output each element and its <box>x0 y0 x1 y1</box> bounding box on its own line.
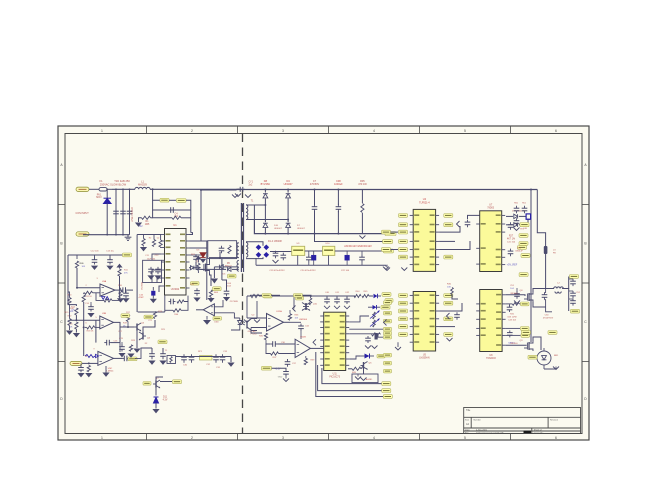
svg-text:C20 470uF/25V: C20 470uF/25V <box>300 270 316 272</box>
yellow label far left of rail <box>296 296 304 300</box>
gnd arrows by y-cap <box>232 195 238 198</box>
center filled ground arrow <box>213 267 215 278</box>
svg-text:LINE FILTER: LINE FILTER <box>131 207 134 222</box>
caps left under Q1 <box>196 288 198 290</box>
filter capacitor C2 <box>122 189 124 234</box>
second output bus <box>537 190 545 247</box>
wire RV1 to rails <box>106 189 108 198</box>
regulator U9 7812 <box>292 246 305 255</box>
top rail to L1 <box>112 188 135 190</box>
aux winding rectifier <box>232 268 239 270</box>
R16 resistor to ground <box>75 322 78 329</box>
U7 right diode D12 <box>514 214 518 218</box>
svg-text:47K: 47K <box>124 272 128 274</box>
svg-text:R27: R27 <box>509 236 514 238</box>
rail cap C13 <box>109 255 111 259</box>
filled arrow right of U1 <box>200 259 206 263</box>
mid cap 2 <box>308 255 310 258</box>
svg-text:PIC16C73: PIC16C73 <box>329 376 340 378</box>
output mosfet Q7 <box>528 293 530 301</box>
reg input cap2 <box>282 253 284 256</box>
second bus continues to choke node <box>545 254 547 289</box>
reg output blue cap <box>345 255 350 260</box>
svg-text:4: 4 <box>373 129 375 133</box>
input rail junction dots <box>106 188 108 190</box>
transistor Q10 with pullup <box>293 296 295 309</box>
U5 left pin labels <box>399 294 408 298</box>
svg-text:2: 2 <box>191 129 193 133</box>
mosfet source sense resistor R06 <box>210 273 212 287</box>
U3A output feedback <box>115 289 119 291</box>
gate protection diode <box>191 266 194 270</box>
bridge rectifier diodes blue <box>256 245 262 251</box>
U8 right label row 328 <box>506 327 520 329</box>
U12A input wires <box>247 317 267 319</box>
connector J1 line input <box>76 187 89 191</box>
yellow labels column far right of U6 <box>384 301 392 305</box>
transformer secondary taps <box>254 204 265 206</box>
reg output cap2 <box>361 255 363 258</box>
svg-text:GND: GND <box>278 377 283 379</box>
svg-text:U3B: U3B <box>102 313 107 315</box>
ground under R2 <box>135 223 142 227</box>
wire opamp3 to bottom row <box>135 348 152 358</box>
divider resistor R09 <box>76 255 78 259</box>
wire label to sense node <box>186 200 191 232</box>
svg-text:4.3V: 4.3V <box>163 400 168 402</box>
left bus wire <box>68 255 76 306</box>
border row ticks left/right <box>58 204 65 206</box>
output caps <box>572 279 574 281</box>
filter capacitor C1 <box>115 189 117 234</box>
yellow label right of U1 <box>191 282 200 286</box>
svg-text:TD62003: TD62003 <box>486 358 496 360</box>
regulator U10 7805 <box>323 246 335 255</box>
svg-text:4-Nov-2005: 4-Nov-2005 <box>476 430 488 432</box>
zener label yellow left <box>143 382 151 386</box>
regulator output wire <box>335 250 383 252</box>
vcc resistor cluster R downs <box>142 239 145 246</box>
yellow label right of Q1 <box>228 274 237 278</box>
yellow label below Q1 <box>213 287 222 291</box>
svg-text:U12B: U12B <box>300 336 306 338</box>
U3D ground arrow <box>206 316 208 320</box>
yellow label D13 net <box>520 223 529 227</box>
wire drain from primary <box>210 258 221 263</box>
U4 left pin labels <box>399 214 408 218</box>
svg-text:3: 3 <box>282 436 284 440</box>
earth ground input <box>127 235 129 238</box>
wire feedback down to U3C <box>119 343 121 352</box>
extra caps mid left <box>90 305 92 307</box>
U8 gnd open arrow <box>447 338 453 341</box>
border column ticks top/bottom <box>146 126 148 134</box>
plus12 rail to label <box>315 234 383 242</box>
yellow label extra 2 <box>213 317 222 321</box>
svg-text:5: 5 <box>464 129 466 133</box>
svg-text:C41 104: C41 104 <box>507 242 516 244</box>
yellow label right of led <box>377 354 385 358</box>
svg-text:Date:: Date: <box>465 429 470 432</box>
transistor Q5 <box>155 381 157 388</box>
arrow above U12B output <box>313 339 316 345</box>
svg-text:R18 1K: R18 1K <box>87 331 94 333</box>
yellow labels left of U6 <box>262 294 271 298</box>
filter cap C7 <box>314 190 316 206</box>
svg-text:D:\design\power\ups2005.ddb: D:\design\power\ups2005.ddb <box>476 431 504 434</box>
svg-text:4: 4 <box>373 436 375 440</box>
yellow label right of U7 b <box>521 254 530 258</box>
ground pin of U1 <box>159 286 161 292</box>
C18 bias cap <box>80 365 82 367</box>
double gnd arrows left <box>246 296 248 318</box>
ic U5 comparator bank <box>413 292 435 352</box>
ground under zener <box>155 403 157 409</box>
U5 to U8 wires <box>439 303 462 311</box>
open gnd arrow below cap <box>283 379 289 382</box>
output choke L2 <box>554 287 564 289</box>
cap C37 <box>287 359 289 361</box>
wire fets to choke <box>533 289 554 293</box>
U3D input wires <box>214 300 223 307</box>
svg-text:470uF/16V: 470uF/16V <box>543 318 554 320</box>
net wire into U12A <box>250 294 262 296</box>
transformer T1 secondary winding lower <box>246 242 248 257</box>
U12B input wires <box>278 343 296 345</box>
svg-text:10uF 104: 10uF 104 <box>147 258 156 260</box>
svg-text:UF4007: UF4007 <box>284 183 294 186</box>
U3C blue input chain <box>85 354 99 357</box>
rail resistor left <box>247 295 251 297</box>
U12A output resistor R36 <box>284 321 291 323</box>
bottom input rail <box>83 234 130 236</box>
svg-text:5: 5 <box>464 436 466 440</box>
svg-text:Z1 P6KE: Z1 P6KE <box>230 301 239 303</box>
wire box to U1 <box>162 259 165 261</box>
sense cap C4 <box>168 209 191 211</box>
wires U6 right pins to label column <box>349 316 369 322</box>
U4 right wires to U7 <box>439 226 460 232</box>
svg-text:U11: U11 <box>333 373 338 375</box>
U5 right pin labels <box>444 294 453 298</box>
rcd clamp box <box>208 241 237 259</box>
U3A minus input wire <box>77 287 100 289</box>
optocoupler U2 arrows <box>242 321 246 323</box>
svg-text:+1.5V: +1.5V <box>275 369 282 371</box>
resistor above U6 <box>309 298 312 305</box>
U8 gate resistor row <box>512 303 519 306</box>
U1 left pin tie wires <box>152 254 161 260</box>
U12A output cap C34 <box>290 321 301 323</box>
svg-text:TLP521-4: TLP521-4 <box>419 201 430 204</box>
open arrow near circle <box>553 367 559 370</box>
crystal box bottom-left <box>167 356 176 364</box>
mid column resistors <box>126 315 129 322</box>
yellow-top component <box>200 356 213 361</box>
transformer secondary loop wire <box>246 205 254 220</box>
wire HV drop to +310V labels <box>153 189 160 200</box>
svg-text:470/50V: 470/50V <box>310 183 320 186</box>
R21 bias resistor <box>87 365 90 372</box>
trimmer VR2 blue <box>373 320 376 327</box>
svg-text:U3D: U3D <box>214 321 219 323</box>
wire between labels <box>169 199 176 201</box>
bottom long wire <box>138 311 165 313</box>
svg-text:250VAC SLOW BLOW: 250VAC SLOW BLOW <box>100 183 127 187</box>
led D14 blue <box>365 354 370 359</box>
wire choke to output node <box>562 277 569 289</box>
Y-cap across isolation <box>237 188 240 190</box>
svg-text:Revision: Revision <box>550 419 559 421</box>
output mosfet Q8 <box>528 342 530 350</box>
wire L1 to HV node <box>150 188 242 190</box>
net label 1.5V <box>262 366 272 370</box>
U3B minus input long wire <box>69 319 100 321</box>
U3D output wire left <box>196 309 203 311</box>
fuse F1 <box>97 188 99 190</box>
yellow label extra 1 <box>121 314 130 318</box>
net label right of Q5 <box>173 380 182 384</box>
transformer T1 core <box>240 203 242 272</box>
svg-text:AGND: AGND <box>366 378 373 381</box>
output connector labels <box>570 275 579 279</box>
wire J4 to U3C <box>82 362 98 364</box>
svg-text:6: 6 <box>555 436 557 440</box>
cap between U4 U7 <box>457 221 460 227</box>
svg-text:T1D 4AB 250: T1D 4AB 250 <box>114 179 130 183</box>
svg-text:AN=DC12V GND=DC12V: AN=DC12V GND=DC12V <box>344 245 372 248</box>
net label HV+ <box>177 199 187 203</box>
mid cap blue polarized <box>311 255 316 260</box>
snubber cap C06 <box>221 259 223 280</box>
decoupling cap bank above U6 <box>326 297 328 299</box>
opamp U12A <box>267 314 284 332</box>
start resistor R2 <box>142 216 151 219</box>
U3B feedback cap C16 <box>95 320 97 342</box>
blue zener in ref row <box>374 294 378 298</box>
svg-text:R12 1K: R12 1K <box>85 296 92 298</box>
blue cap right <box>526 214 531 220</box>
logo mark <box>524 431 532 433</box>
far-left resistor column <box>68 298 71 305</box>
svg-text:6: 6 <box>555 129 557 133</box>
U1 right wire row1 <box>190 240 207 242</box>
bottom row caps 2 <box>215 354 217 357</box>
wire reg1 to reg2 <box>305 250 323 252</box>
U7 right diode D13 <box>514 223 518 227</box>
svg-text:Number: Number <box>474 418 482 421</box>
power symbol box below U6 <box>352 374 378 383</box>
mid resistor R35 <box>264 333 267 340</box>
svg-text:4K7 1%: 4K7 1% <box>507 239 515 241</box>
U3A blue diode pair <box>102 297 105 300</box>
junction dots secondary <box>264 189 266 191</box>
opamp U3C <box>98 351 114 365</box>
svg-text:C22 104: C22 104 <box>341 270 350 272</box>
U5 gnd arrow <box>395 347 401 350</box>
rectifier D8 <box>264 190 266 193</box>
caps bottom-left cluster <box>151 351 153 354</box>
rail yellow label left <box>264 294 273 298</box>
svg-text:UC3842: UC3842 <box>171 289 180 291</box>
svg-text:BYV26C: BYV26C <box>261 183 271 186</box>
wire winding to bridge top <box>246 242 263 246</box>
opamp U3D pointing left <box>203 304 214 316</box>
net label on left rail <box>123 253 132 257</box>
transformer T1 secondary winding upper <box>246 205 248 220</box>
cluster resistor 3 <box>159 240 162 247</box>
wire primary bottom to mosfet drain <box>220 252 239 258</box>
clamp cap <box>221 246 223 249</box>
bleed resistor R5 <box>361 190 363 204</box>
optocoupler U2 transistor side <box>246 321 248 329</box>
bottom row ground <box>227 363 234 367</box>
svg-text:IRF540: IRF540 <box>510 293 518 295</box>
ferrite bead L3 <box>544 246 548 254</box>
gnd open arrow under y-cap <box>235 194 241 197</box>
U1 right wire row2 <box>190 247 207 249</box>
cap below gate row <box>509 305 511 307</box>
svg-text:C43 104: C43 104 <box>508 320 517 322</box>
U8 right wire to Q7 gate <box>506 295 525 296</box>
svg-text:U3A: U3A <box>102 280 107 283</box>
U8 right label row 335 <box>506 334 521 336</box>
opamp U3B <box>100 316 114 329</box>
U1 right wire row3 <box>190 254 203 256</box>
filter cap C8 <box>337 190 339 206</box>
regulator bottom ground rail <box>256 264 386 266</box>
gnd open arrow on lower rail <box>359 236 365 239</box>
bus cap and resistor mid right <box>516 291 518 293</box>
yellow labels mid-left area <box>144 315 153 319</box>
U3B output wire <box>114 322 121 342</box>
U4 gnd arrows <box>384 268 390 271</box>
svg-text:MH2029: MH2029 <box>138 185 147 187</box>
svg-text:Sheet of: Sheet of <box>534 429 542 432</box>
ic U4 optocoupler driver <box>413 209 435 271</box>
bus wire row1 to label <box>322 368 382 384</box>
reg input cap <box>275 251 277 254</box>
yellow net label on lower rail right <box>385 232 396 236</box>
svg-text:1M5: 1M5 <box>145 224 150 226</box>
svg-text:IRF540: IRF540 <box>510 343 518 345</box>
title block <box>464 408 581 434</box>
U3A plus input resistor R12 <box>83 292 86 294</box>
bias ground arrows <box>85 373 92 377</box>
svg-text:10K 1/2W: 10K 1/2W <box>507 317 516 319</box>
bus wire row2 to label <box>318 365 382 391</box>
gnd under C06 <box>223 297 230 301</box>
wire vcc to U1 <box>190 233 193 235</box>
bottom right diode circle part <box>537 351 551 365</box>
svg-text:UF4007: UF4007 <box>274 228 283 230</box>
svg-text:1: 1 <box>101 129 103 133</box>
U12B output to U6 <box>310 347 323 349</box>
U3B plus input resistor R18 <box>87 326 95 329</box>
svg-text:LM2904: LM2904 <box>299 319 308 321</box>
wire bus down to Q8 <box>530 299 532 342</box>
right vertical bus from top <box>530 206 532 299</box>
svg-text:470P: 470P <box>138 297 144 299</box>
transformer T1 primary winding <box>237 243 239 258</box>
open arrow right of trimmers <box>384 319 387 325</box>
columns x120 small parts <box>119 291 122 298</box>
ic U7 regulator <box>480 211 502 272</box>
inner border frame <box>65 134 582 434</box>
U1 top right pull parts <box>195 256 201 260</box>
bus cap left of choke <box>544 292 546 294</box>
svg-text:Drawn By:: Drawn By: <box>534 431 544 434</box>
svg-text:U12A: U12A <box>276 310 282 313</box>
caps right column <box>516 218 518 221</box>
transistor Q3 <box>136 324 138 331</box>
bridge output wire <box>270 251 292 253</box>
svg-text:2: 2 <box>191 436 193 440</box>
svg-text:78D05: 78D05 <box>487 208 494 210</box>
svg-text:U3C: U3C <box>108 368 113 370</box>
wire clamp to transformer primary top <box>237 242 239 244</box>
cap row 334 <box>509 330 511 332</box>
zener D11 blue <box>155 388 157 396</box>
rectifier D7 lower <box>286 223 291 227</box>
svg-text:Title: Title <box>466 409 471 412</box>
left loop wire around U1 <box>137 234 161 236</box>
sheet background <box>58 126 589 440</box>
yellow label lower right of U7 <box>519 273 528 277</box>
filter capacitor C3 <box>129 189 131 234</box>
svg-text:3300uF: 3300uF <box>515 250 523 252</box>
secondary lower rail <box>254 220 395 234</box>
parts at right top x515-530 <box>516 206 518 209</box>
pull-up arrow and resistor R11 <box>116 264 122 268</box>
svg-text:LM339AN: LM339AN <box>419 356 430 359</box>
wire top rail to far right <box>530 190 532 207</box>
resistor R39 <box>304 358 307 365</box>
yellow labels right column <box>519 234 528 238</box>
U4 far left labels <box>382 230 391 234</box>
blue cap C15 with ground <box>152 287 154 291</box>
wires transistor pair <box>120 326 134 328</box>
svg-text:1000uF: 1000uF <box>334 183 343 186</box>
blue polarized cap right top <box>526 214 531 219</box>
rail cap C12 <box>94 255 96 259</box>
U3C output cap <box>114 357 123 359</box>
cap above U8 <box>456 312 458 315</box>
lower mid-left parts <box>121 345 123 347</box>
U8 right wire to Q8 gate blue text <box>506 344 527 346</box>
optocoupler U2 led side <box>234 313 239 318</box>
Q6 base resistor <box>352 367 361 370</box>
yellow labels right of trimmers <box>384 311 392 315</box>
varistor RV1 blue <box>104 199 112 204</box>
svg-text:LM324: LM324 <box>107 371 114 373</box>
connector J2 neutral input <box>76 232 89 236</box>
svg-text:MOV: MOV <box>96 196 102 199</box>
yellow label right of U7 a <box>518 246 527 250</box>
isolation dashed divider line <box>242 134 244 434</box>
opamp U3A <box>100 284 115 296</box>
clamp diode D5 <box>219 265 223 269</box>
ic U1 UC3842 pwm controller <box>165 229 187 296</box>
cluster resistor 2 <box>152 240 155 247</box>
svg-text:470 1W: 470 1W <box>358 183 367 186</box>
svg-text:PC817: PC817 <box>251 334 258 336</box>
bus wire row3 to label <box>316 352 383 397</box>
gnd arrow end of rail <box>383 267 389 270</box>
ic U6 microcontroller <box>324 312 346 370</box>
blue led lower ref row <box>373 305 377 309</box>
supply rail above U6 <box>300 295 353 297</box>
